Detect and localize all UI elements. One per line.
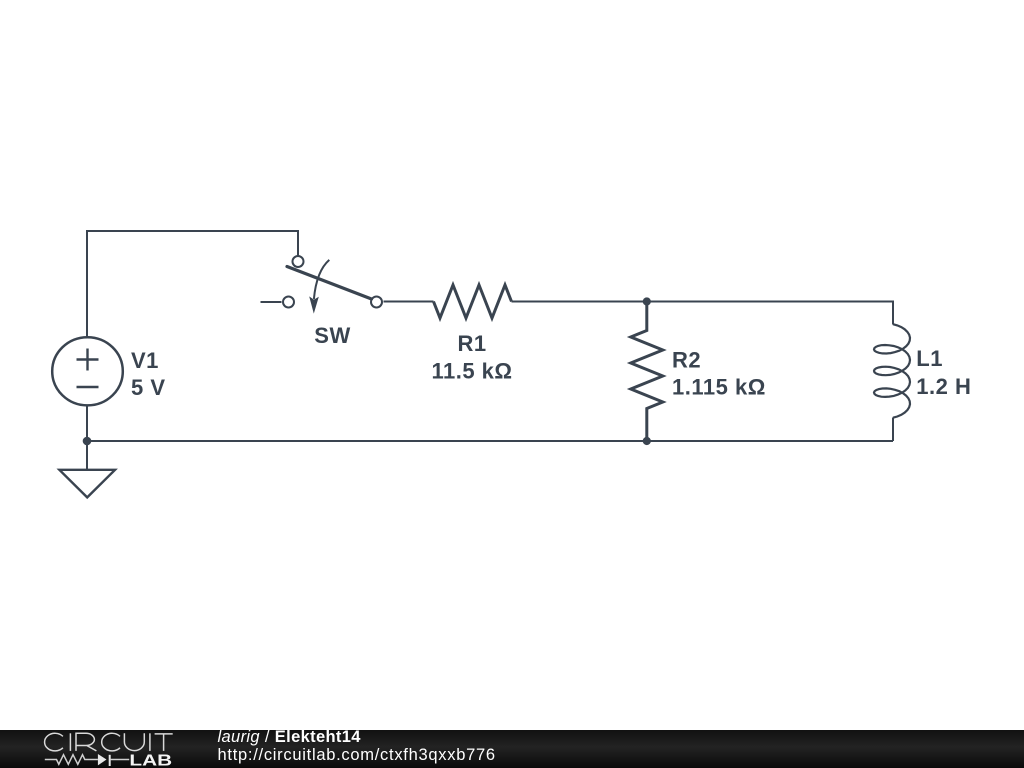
logo letter C: [45, 733, 63, 751]
logo diode: [98, 754, 107, 765]
wire bottom net: [87, 440, 893, 442]
svg-text:R2: R2: [672, 348, 701, 373]
node B dot: [643, 437, 651, 445]
logo letter I: [69, 733, 71, 751]
svg-text:V1: V1: [131, 348, 159, 373]
svg-text:1.115 kΩ: 1.115 kΩ: [672, 375, 766, 400]
svg-text:LAB: LAB: [129, 753, 172, 768]
ground: [59, 470, 115, 498]
svg-text:11.5 kΩ: 11.5 kΩ: [431, 359, 512, 384]
node: ground junction dot: [83, 437, 92, 446]
wire L1 bottom: [892, 418, 894, 442]
logo letter T: [155, 734, 173, 751]
logo resistor zigzag: [45, 755, 98, 765]
svg-text:1.2 H: 1.2 H: [916, 374, 971, 399]
logo letter R: [76, 733, 96, 751]
logo letter U: [124, 733, 144, 750]
wire node A to L1 top: [647, 302, 893, 325]
logo letter I: [149, 733, 151, 751]
title: author / circuit name: [218, 728, 361, 747]
CircuitLab logo: [0, 730, 200, 768]
node A dot: [643, 297, 651, 305]
wire switch to R1: [384, 301, 434, 303]
wire V1 bottom to ground node: [86, 405, 88, 470]
inductor L1: [874, 324, 910, 418]
svg-text:L1: L1: [916, 346, 943, 371]
voltage source V1: [52, 337, 123, 405]
svg-text:R1: R1: [457, 331, 486, 356]
svg-text:5 V: 5 V: [131, 375, 166, 400]
footer bar: [0, 730, 1024, 768]
resistor R2: [631, 302, 663, 442]
switch actuation arrow: [314, 260, 329, 299]
resistor R1: [434, 285, 512, 318]
svg-text:SW: SW: [314, 323, 350, 348]
circuit URL: [218, 746, 496, 765]
switch SW: [261, 256, 383, 308]
wire R1 to node A: [512, 301, 647, 303]
wire from V1 top to switch throw: [87, 231, 298, 338]
logo letter C: [102, 733, 120, 751]
